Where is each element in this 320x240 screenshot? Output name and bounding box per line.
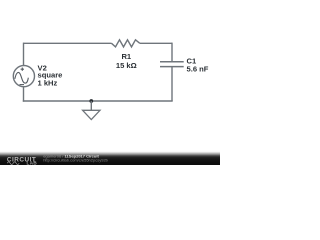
wire bottom horizontal segment	[23, 100, 173, 102]
capacitor C1	[160, 62, 184, 67]
svg-text:1 kHz: 1 kHz	[38, 79, 58, 88]
node junction dot	[89, 99, 93, 103]
wire top-right horizontal segment	[140, 42, 172, 44]
svg-text:LAB: LAB	[27, 160, 38, 165]
svg-text:http://circuitlab.com/c/e55h2p: http://circuitlab.com/c/e55h2pcsy92b	[43, 158, 108, 163]
wire left vertical lower segment	[23, 87, 25, 102]
watermark bar	[0, 152, 220, 166]
wire left vertical upper segment	[23, 43, 25, 66]
wire right vertical lower segment	[171, 67, 173, 101]
resistor R1	[112, 40, 140, 47]
wire right vertical upper segment	[171, 43, 173, 62]
voltage source V2	[13, 66, 34, 87]
wire top-left horizontal segment	[24, 42, 112, 44]
watermark logo wave	[7, 162, 19, 165]
ground	[83, 110, 100, 119]
wire ground stub	[90, 101, 92, 110]
svg-text:15 kΩ: 15 kΩ	[116, 61, 137, 70]
svg-text:R1: R1	[121, 52, 131, 61]
svg-text:5.6 nF: 5.6 nF	[187, 65, 209, 74]
